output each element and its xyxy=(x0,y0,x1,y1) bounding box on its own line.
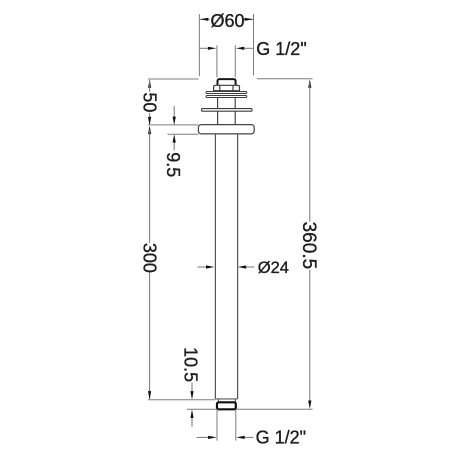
dim Ø24 right arrow xyxy=(238,265,255,268)
dim Ø24 left arrow xyxy=(198,265,215,268)
svg-text:50: 50 xyxy=(139,92,159,112)
bottom collar xyxy=(217,402,236,409)
dim Ø60 arrow right xyxy=(243,18,253,21)
dim Ø60 arrow left xyxy=(200,18,210,21)
dim G 1/2 top extension line right xyxy=(234,45,236,77)
pipe body xyxy=(215,134,237,399)
neck step xyxy=(219,399,236,402)
dim label 50 xyxy=(139,92,159,112)
dim Ø60 extension line right xyxy=(253,14,255,75)
dim label G 1/2 bottom xyxy=(256,427,306,447)
threaded stem lower segment xyxy=(218,112,236,125)
dim G 1/2 bottom left arrow and tail xyxy=(197,436,217,439)
svg-text:G 1/2": G 1/2" xyxy=(256,427,306,447)
dim 10.5 lower arrow xyxy=(190,410,193,427)
dim 360.5 lower arrow xyxy=(308,270,311,410)
dim 360.5 top extension line xyxy=(257,78,313,80)
dim G 1/2 top right arrow and tail xyxy=(236,47,253,50)
svg-text:Ø24: Ø24 xyxy=(258,259,289,277)
dim G 1/2 bottom right arrow and tail xyxy=(236,436,253,439)
dim 50 top extension line xyxy=(148,78,198,80)
pipe bottom extension line xyxy=(148,399,215,401)
svg-text:300: 300 xyxy=(139,243,159,273)
dim label 300 xyxy=(139,243,159,273)
washer 2 xyxy=(206,96,247,98)
dim label Ø24 xyxy=(258,259,289,277)
dim label G 1/2 top xyxy=(256,39,306,59)
dim G 1/2 top left arrow and tail xyxy=(199,47,216,50)
hex nut xyxy=(214,85,240,90)
dim 9.5 upper arrow xyxy=(173,106,176,125)
cap nut (top cover) xyxy=(218,79,236,85)
dim 300 lower arrow xyxy=(148,273,151,400)
dim Ø60 extension line left xyxy=(198,14,200,76)
dim 10.5 upper arrow xyxy=(190,383,193,400)
dim 50 lower arrow xyxy=(148,113,151,126)
dim G 1/2 bottom extension line left xyxy=(216,409,218,440)
flange top extension line xyxy=(148,124,198,126)
washer 1 xyxy=(206,92,247,94)
threaded stem upper segment xyxy=(218,98,236,109)
svg-text:10.5: 10.5 xyxy=(181,347,201,382)
dim label Ø60 xyxy=(210,11,244,31)
ceiling flange xyxy=(198,125,254,134)
dim 360.5 bottom extension line xyxy=(237,408,313,410)
dim label 9.5 xyxy=(163,152,183,177)
dim label 10.5 xyxy=(181,347,201,382)
dim G 1/2 top extension line left xyxy=(216,45,218,77)
collar bottom extension line left xyxy=(187,408,217,410)
dim 300 upper arrow xyxy=(148,126,151,243)
dim G 1/2 bottom extension line right xyxy=(235,409,237,440)
svg-text:360.5: 360.5 xyxy=(298,222,319,270)
dim 50 upper arrow xyxy=(148,79,151,92)
svg-text:Ø60: Ø60 xyxy=(210,11,244,31)
svg-text:G 1/2": G 1/2" xyxy=(256,39,306,59)
flange bottom extension line xyxy=(168,133,199,135)
pipe bottom edge xyxy=(215,398,238,400)
dim label 360.5 xyxy=(298,222,319,270)
mid washer plate xyxy=(202,109,253,112)
dim 360.5 upper arrow xyxy=(308,79,311,221)
dim 9.5 lower arrow xyxy=(173,134,176,150)
svg-text:9.5: 9.5 xyxy=(163,152,183,177)
